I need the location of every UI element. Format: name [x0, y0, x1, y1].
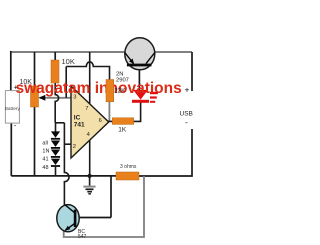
- svg-text:1N: 1N: [42, 149, 49, 155]
- wire feedback 22K with hop over pin7 riser: [66, 62, 109, 80]
- battery B1: [5, 91, 21, 130]
- label Q1 2N2907: [116, 71, 129, 83]
- svg-text:7: 7: [85, 106, 88, 112]
- wire BC547 base to ground rail riser: [76, 176, 111, 218]
- ground: [83, 174, 95, 194]
- wire pin4 lead to ground: [89, 139, 91, 176]
- wire ground rail bottom: [11, 175, 116, 177]
- svg-text:3 ohms: 3 ohms: [120, 164, 137, 170]
- wire pin6 output: [108, 120, 113, 122]
- wire battery minus lead: [10, 123, 12, 176]
- wire BC547 emitter bottom rail: [64, 176, 144, 237]
- resistor R3 1K horizontal: [112, 118, 133, 125]
- wire USB plus terminal: [191, 52, 193, 91]
- wire diode chain top: [55, 123, 57, 132]
- wire pot bottom lead: [34, 107, 36, 176]
- transistor Q2 BC547: [57, 205, 79, 232]
- wire battery plus lead: [10, 51, 12, 91]
- wire 1K to LED cathode: [134, 103, 141, 122]
- svg-text:48: 48: [42, 165, 48, 171]
- wire diode chain bottom: [55, 167, 57, 176]
- label USB port: [180, 85, 193, 128]
- resistor R2 22K vertical: [106, 80, 114, 102]
- diode D3 1N4148: [51, 150, 60, 158]
- svg-text:Battery: Battery: [5, 106, 21, 112]
- svg-text:41: 41: [42, 157, 48, 163]
- svg-text:all: all: [42, 140, 48, 146]
- svg-text:741: 741: [74, 122, 85, 129]
- LED D5 red: [132, 90, 158, 103]
- wire 3ohm to USB minus: [139, 129, 192, 176]
- wire pot top stub: [34, 52, 36, 87]
- svg-text:USB: USB: [180, 111, 193, 118]
- svg-text:swagatam innovations: swagatam innovations: [16, 80, 182, 97]
- svg-text:IC: IC: [74, 115, 81, 122]
- svg-text:1K: 1K: [118, 126, 127, 133]
- wire node jog to pin2: [55, 122, 64, 124]
- svg-text:6: 6: [99, 118, 102, 124]
- svg-text:22K: 22K: [114, 88, 126, 95]
- op-amp U1 IC 741: [71, 86, 109, 158]
- wire LED anode to 2N2907 base: [138, 66, 140, 91]
- diode D2 1N4148: [51, 141, 60, 149]
- transistor Q1 2N2907: [125, 38, 155, 70]
- resistor R1 10K vertical: [51, 60, 59, 83]
- wire pot wiper to pin3: [40, 97, 72, 99]
- wire pin2 lead: [64, 143, 71, 145]
- wire pin7 riser to rail: [89, 52, 91, 105]
- label diode chain all 1N4148: [42, 140, 49, 171]
- svg-text:+: +: [14, 85, 18, 92]
- resistor R4 3 ohms horizontal: [116, 172, 139, 180]
- wire R1 bottom with hop over wiper: [55, 83, 58, 123]
- svg-text:10K: 10K: [62, 57, 75, 66]
- wire R1 top stub: [54, 52, 56, 61]
- svg-text:+: +: [185, 85, 190, 95]
- svg-text:2: 2: [73, 144, 76, 150]
- wire pin3 node vertical from feedback: [65, 67, 67, 98]
- svg-text:547: 547: [78, 234, 87, 240]
- wire 22K bottom lead to output node: [108, 102, 110, 122]
- potentiometer P1 10K: [31, 86, 46, 107]
- diode D1 1N4148: [51, 131, 60, 139]
- diode D4 1N4148: [51, 159, 60, 167]
- wire pin2 branch down to BC547 collector with hop over ground rail: [64, 123, 69, 208]
- svg-text:-: -: [185, 118, 188, 127]
- label Q2 BC547: [78, 229, 87, 240]
- wire top positive rail: [11, 51, 192, 53]
